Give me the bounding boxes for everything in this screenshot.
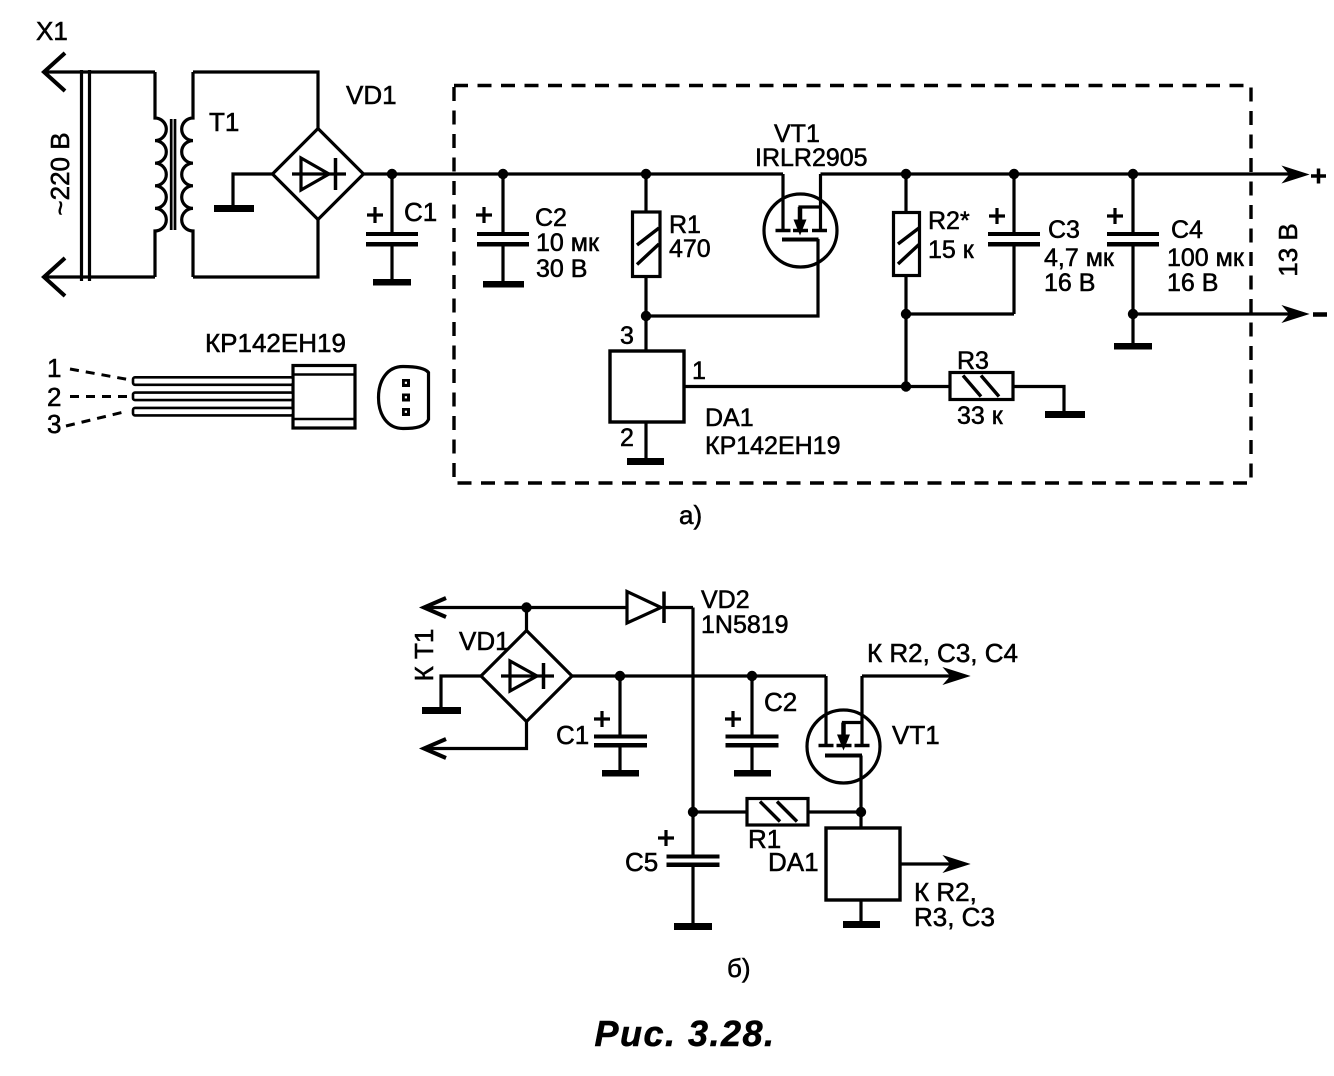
arrow X1 top bbox=[44, 53, 65, 91]
node bbox=[521, 602, 531, 612]
arrow K R2 R3 C3 bbox=[944, 856, 969, 872]
svg-text:30 В: 30 В bbox=[536, 255, 587, 283]
svg-text:R3, С3: R3, С3 bbox=[914, 902, 995, 932]
label R2* value bbox=[928, 207, 975, 264]
capacitor C3 bbox=[988, 174, 1040, 314]
wire output minus bbox=[1133, 312, 1292, 315]
svg-text:16 В: 16 В bbox=[1044, 269, 1095, 297]
svg-text:C1: C1 bbox=[556, 720, 589, 750]
svg-text:100 мк: 100 мк bbox=[1167, 244, 1245, 272]
ground bbox=[1045, 411, 1085, 418]
wire pin 1 bbox=[684, 385, 906, 388]
wire bbox=[193, 220, 318, 278]
capacitor C2 (b) bbox=[725, 676, 779, 770]
svg-text:2: 2 bbox=[620, 424, 634, 452]
label C2 value bbox=[535, 204, 600, 283]
wire bbox=[44, 70, 155, 73]
label R3 value bbox=[957, 347, 1004, 430]
wire bbox=[44, 275, 155, 278]
transistor VT1 bbox=[764, 174, 837, 267]
diode VD2 bbox=[627, 592, 693, 624]
svg-text:а): а) bbox=[679, 500, 702, 530]
node bbox=[901, 309, 911, 319]
svg-text:X1: X1 bbox=[36, 16, 68, 46]
wire bbox=[906, 385, 950, 388]
svg-text:C2: C2 bbox=[535, 204, 567, 232]
arrow output plus bbox=[1283, 167, 1308, 183]
svg-text:VD1: VD1 bbox=[346, 80, 397, 110]
svg-text:R2*: R2* bbox=[928, 207, 970, 235]
svg-text:16 В: 16 В bbox=[1167, 269, 1218, 297]
ground bbox=[602, 770, 639, 777]
svg-text:C4: C4 bbox=[1171, 216, 1203, 244]
svg-text:C3: C3 bbox=[1048, 216, 1080, 244]
svg-text:~220 В: ~220 В bbox=[45, 132, 75, 215]
svg-text:13 В: 13 В bbox=[1273, 223, 1303, 277]
svg-text:1: 1 bbox=[692, 357, 706, 385]
ground bbox=[483, 281, 524, 288]
ground bbox=[373, 279, 411, 286]
ground bbox=[1114, 314, 1152, 350]
ground bbox=[843, 921, 880, 928]
svg-text:10 мк: 10 мк bbox=[536, 229, 600, 257]
connector X1 bbox=[82, 70, 90, 281]
label C4 value bbox=[1167, 216, 1245, 297]
svg-text:1: 1 bbox=[47, 353, 61, 383]
svg-text:VD1: VD1 bbox=[459, 626, 510, 656]
wire bbox=[424, 722, 527, 749]
bridge rectifier VD1 (b) bbox=[481, 608, 572, 722]
resistor R3 bbox=[950, 373, 1064, 412]
node bbox=[856, 807, 866, 817]
label C3 value bbox=[1044, 216, 1115, 297]
voltage regulator DA1 bbox=[610, 351, 684, 422]
label VD2 1N5819 bbox=[701, 586, 789, 639]
transformer T1 bbox=[155, 72, 193, 277]
svg-text:К R2, С3, С4: К R2, С3, С4 bbox=[867, 638, 1018, 668]
svg-text:DA1: DA1 bbox=[705, 404, 754, 432]
svg-text:К Т1: К Т1 bbox=[409, 629, 439, 682]
svg-text:КР142ЕН19: КР142ЕН19 bbox=[705, 432, 841, 460]
svg-text:1N5819: 1N5819 bbox=[701, 611, 789, 639]
arrow to T1 bottom bbox=[424, 739, 446, 758]
arrow to T1 top bbox=[424, 598, 446, 617]
label plus bbox=[1311, 169, 1326, 184]
arrow output minus bbox=[1283, 306, 1308, 322]
transistor VT1 (b) bbox=[807, 676, 880, 812]
node bbox=[641, 311, 651, 321]
pin 1 leader bbox=[70, 369, 128, 380]
pin 3 leader bbox=[66, 411, 128, 426]
resistor R1 bbox=[633, 174, 661, 316]
capacitor C1 (b) bbox=[594, 676, 647, 770]
capacitor C4 bbox=[1107, 174, 1159, 314]
wire pin 2 bbox=[644, 422, 647, 458]
ground bbox=[214, 205, 254, 212]
svg-text:VD2: VD2 bbox=[701, 586, 750, 614]
svg-text:3: 3 bbox=[47, 409, 61, 439]
package lead 3 bbox=[133, 408, 293, 416]
voltage regulator DA1 (b) bbox=[826, 812, 955, 921]
package pinout bottom view bbox=[379, 367, 429, 429]
svg-text:C2: C2 bbox=[764, 687, 797, 717]
wire main bus right bbox=[821, 172, 1293, 175]
bridge rectifier VD1 bbox=[273, 129, 364, 220]
label VT1 IRLR2905 bbox=[755, 120, 868, 172]
wire bbox=[424, 606, 627, 609]
pin 2 leader bbox=[70, 395, 128, 398]
node bbox=[615, 671, 625, 681]
arrow X1 bottom bbox=[44, 258, 65, 296]
arrow K R2 C3 C4 bbox=[944, 668, 969, 684]
svg-text:R3: R3 bbox=[957, 347, 989, 375]
wire main bus left bbox=[364, 172, 784, 175]
svg-text:б): б) bbox=[727, 953, 751, 983]
package lead 2 bbox=[133, 393, 293, 401]
svg-text:DA1: DA1 bbox=[768, 847, 819, 877]
capacitor C1 bbox=[366, 174, 418, 279]
svg-text:КР142ЕН19: КР142ЕН19 bbox=[205, 328, 346, 358]
resistor R2 bbox=[894, 174, 920, 387]
node bbox=[1128, 309, 1138, 319]
ground bbox=[734, 770, 771, 777]
wire bbox=[193, 72, 318, 129]
IC package КР142ЕН19 body bbox=[293, 366, 355, 429]
svg-text:IRLR2905: IRLR2905 bbox=[755, 144, 868, 172]
package lead 1 bbox=[133, 377, 293, 385]
node bbox=[688, 807, 698, 817]
ground bbox=[627, 458, 664, 465]
wire bbox=[646, 239, 818, 316]
svg-text:2: 2 bbox=[47, 382, 61, 412]
node bbox=[498, 169, 508, 179]
wire bbox=[441, 676, 481, 707]
node bbox=[641, 169, 651, 179]
module boundary (dashed) bbox=[454, 86, 1251, 484]
node bbox=[387, 169, 397, 179]
node bbox=[1009, 169, 1019, 179]
ground bbox=[674, 923, 712, 930]
node bbox=[901, 169, 911, 179]
resistor R1 (b) bbox=[693, 799, 861, 826]
node bbox=[901, 381, 911, 391]
label R1 value bbox=[669, 211, 711, 263]
svg-text:C1: C1 bbox=[404, 197, 437, 227]
svg-text:3: 3 bbox=[620, 322, 634, 350]
svg-text:Рис. 3.28.: Рис. 3.28. bbox=[594, 1013, 775, 1054]
label minus bbox=[1313, 312, 1327, 317]
svg-text:33 к: 33 к bbox=[957, 402, 1004, 430]
svg-text:C5: C5 bbox=[625, 847, 658, 877]
wire pin 3 bbox=[644, 316, 647, 351]
svg-text:T1: T1 bbox=[209, 107, 239, 137]
capacitor C2 bbox=[476, 174, 529, 281]
wire bbox=[906, 312, 1014, 315]
node bbox=[747, 671, 757, 681]
svg-text:4,7 мк: 4,7 мк bbox=[1044, 244, 1115, 272]
wire bbox=[233, 174, 273, 205]
svg-text:VT1: VT1 bbox=[892, 720, 940, 750]
label К R2, R3, С3 bbox=[914, 877, 995, 932]
wire VD2 cathode down bbox=[691, 608, 694, 813]
ground bbox=[422, 707, 461, 714]
svg-text:470: 470 bbox=[669, 235, 711, 263]
wire output K R2 C3 C4 bbox=[862, 674, 955, 677]
label DA1 КР142ЕН19 bbox=[705, 404, 841, 460]
capacitor C5 bbox=[658, 812, 720, 923]
wire bbox=[572, 674, 826, 677]
node bbox=[1128, 169, 1138, 179]
svg-text:15 к: 15 к bbox=[928, 236, 975, 264]
